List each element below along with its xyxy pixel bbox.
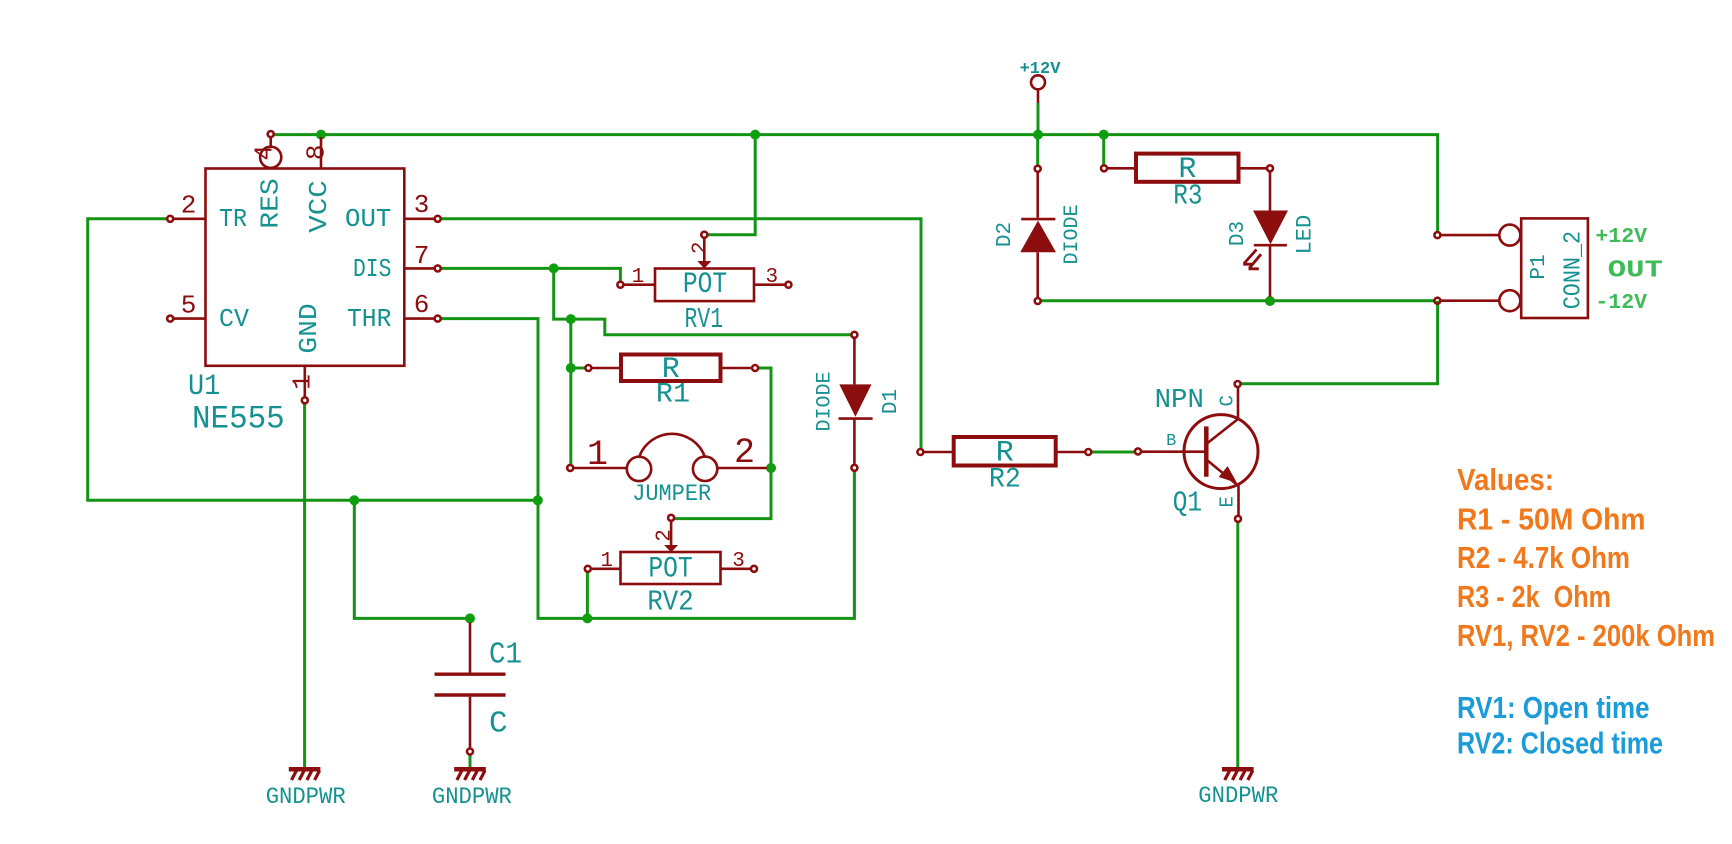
svg-text:THR: THR [347, 304, 391, 334]
svg-text:+12V: +12V [1020, 60, 1062, 79]
svg-text:DIODE: DIODE [813, 371, 836, 431]
svg-text:5: 5 [181, 291, 197, 321]
svg-text:8: 8 [302, 144, 332, 160]
svg-text:RV1, RV2 - 200k Ohm: RV1, RV2 - 200k Ohm [1457, 618, 1715, 653]
svg-text:DIS: DIS [353, 254, 391, 284]
svg-text:JUMPER: JUMPER [632, 481, 711, 508]
svg-text:C1: C1 [489, 638, 522, 673]
svg-text:CONN_2: CONN_2 [1560, 231, 1587, 309]
svg-text:OUT: OUT [1608, 258, 1663, 285]
svg-text:1: 1 [587, 435, 608, 475]
svg-text:2: 2 [181, 191, 197, 221]
svg-text:1: 1 [632, 266, 645, 289]
svg-text:NPN: NPN [1155, 385, 1204, 415]
svg-text:7: 7 [414, 241, 430, 271]
svg-text:R2 - 4.7k Ohm: R2 - 4.7k Ohm [1457, 540, 1630, 575]
svg-text:P1: P1 [1528, 254, 1551, 279]
svg-text:3: 3 [765, 266, 778, 289]
svg-text:6: 6 [414, 290, 430, 320]
svg-text:R1: R1 [656, 380, 690, 411]
svg-text:E: E [1216, 496, 1238, 507]
svg-text:R3: R3 [1173, 180, 1202, 213]
svg-text:LED: LED [1293, 215, 1318, 255]
svg-text:C: C [1216, 395, 1238, 406]
svg-text:D3: D3 [1227, 221, 1250, 246]
svg-text:Q1: Q1 [1173, 487, 1202, 520]
svg-text:1: 1 [600, 550, 613, 573]
svg-text:POT: POT [683, 268, 727, 302]
svg-text:3: 3 [414, 190, 430, 220]
svg-text:U1: U1 [188, 370, 220, 404]
svg-text:B: B [1166, 432, 1176, 451]
svg-text:C: C [489, 707, 508, 742]
svg-text:R2: R2 [989, 465, 1021, 496]
svg-text:RV1: Open time: RV1: Open time [1457, 690, 1650, 725]
svg-text:GNDPWR: GNDPWR [432, 784, 512, 811]
svg-text:D2: D2 [994, 222, 1017, 247]
svg-text:RV2: Closed time: RV2: Closed time [1457, 726, 1663, 761]
svg-text:TR: TR [219, 204, 247, 234]
svg-text:VCC: VCC [304, 180, 334, 233]
svg-text:R1 - 50M Ohm: R1 - 50M Ohm [1457, 502, 1646, 537]
svg-text:3: 3 [732, 550, 745, 573]
svg-text:2: 2 [689, 241, 712, 254]
svg-text:RES: RES [256, 178, 286, 229]
svg-text:+12V: +12V [1595, 225, 1647, 249]
svg-text:2: 2 [654, 529, 677, 542]
svg-text:Values:: Values: [1457, 462, 1554, 497]
svg-text:-12V: -12V [1595, 291, 1647, 315]
svg-text:RV1: RV1 [685, 303, 724, 336]
svg-text:4: 4 [249, 145, 279, 161]
svg-text:DIODE: DIODE [1061, 204, 1084, 264]
svg-text:1: 1 [288, 374, 318, 390]
svg-text:RV2: RV2 [647, 586, 693, 619]
svg-text:CV: CV [219, 304, 249, 334]
svg-text:NE555: NE555 [192, 401, 285, 438]
svg-text:GNDPWR: GNDPWR [1198, 783, 1278, 810]
svg-text:GND: GND [294, 303, 324, 353]
svg-text:POT: POT [648, 553, 692, 587]
svg-text:R3 - 2k Ohm: R3 - 2k Ohm [1457, 579, 1611, 614]
svg-text:OUT: OUT [345, 204, 391, 234]
svg-text:2: 2 [734, 433, 755, 473]
svg-text:D1: D1 [880, 389, 903, 414]
svg-text:GNDPWR: GNDPWR [266, 784, 346, 811]
